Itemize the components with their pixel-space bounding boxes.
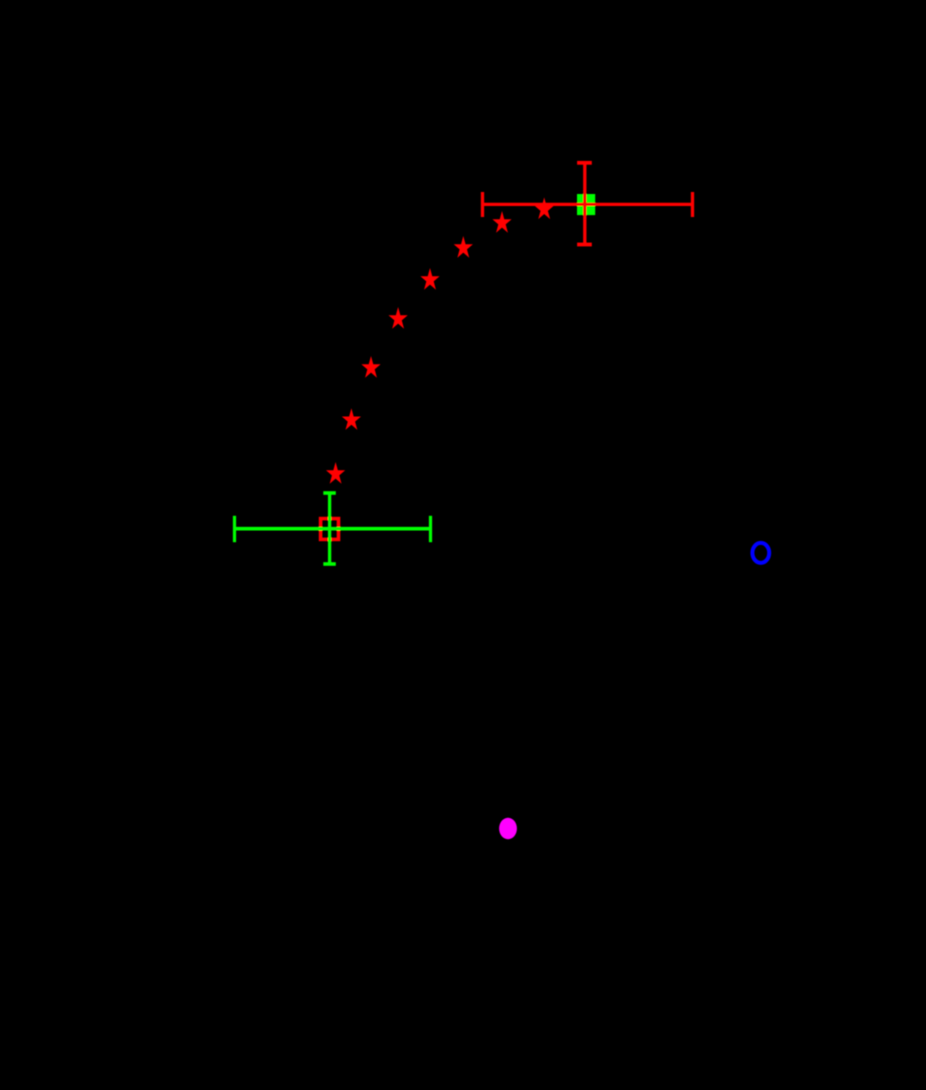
red star 4 [420,268,439,290]
red error bar: horizontal line [483,203,693,206]
red error bar: bottom cap [577,243,592,247]
green error bar: vertical line [328,493,331,564]
green error bar: top cap [323,491,336,495]
red star 5 [388,307,407,329]
green error bar: right cap [429,516,432,542]
magenta filled dot marker [499,818,517,839]
red star 3 [454,236,473,258]
red error bar: top cap [577,161,592,165]
red star 6 [361,356,380,378]
green error bar: horizontal line [235,527,431,531]
green filled square marker [577,194,595,215]
red error bar: vertical line [583,163,586,245]
blue open circle marker [752,543,769,563]
red star 7 [342,408,361,430]
red star 1 [535,197,554,219]
red error bar: right cap [691,192,694,217]
red star 2 [492,211,511,233]
red error bar: left cap [481,192,484,217]
green error bar: bottom cap [323,562,336,566]
red open square marker [321,519,339,540]
green error bar: left cap [233,516,236,542]
red star 8 [326,462,345,484]
